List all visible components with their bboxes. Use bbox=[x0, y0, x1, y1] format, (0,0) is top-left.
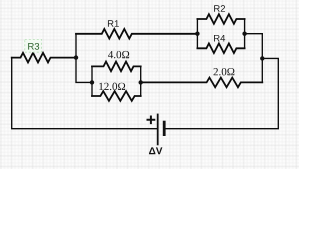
wire left stub of 4.0/12.0 parallel pair bbox=[91, 66, 93, 96]
label R1 bbox=[108, 20, 119, 27]
resistor R3 bbox=[12, 53, 76, 63]
battery negative plate (short) bbox=[163, 121, 166, 136]
label R4 bbox=[214, 35, 225, 42]
wire left-vertical and bottom from R3 to battery positive bbox=[12, 58, 157, 129]
value label 4.0 ohm bbox=[108, 51, 129, 58]
wire vertical segment through node C joining R2R4 output to 2.0ohm bbox=[261, 34, 263, 83]
label deltaV bbox=[149, 147, 162, 154]
wire right stub of 4.0/12.0 parallel pair bbox=[140, 66, 142, 96]
resistor 2.0 ohm bbox=[141, 78, 263, 88]
resistor R1 bbox=[76, 29, 197, 39]
node right of 4.0/12.0 parallel pair bbox=[139, 80, 143, 84]
label R2 bbox=[214, 5, 225, 12]
node left of 4.0/12.0 parallel pair bbox=[90, 80, 94, 84]
node A junction of R3, R1 and parallel combo bbox=[74, 55, 78, 59]
wire from battery negative along bottom and right edge up to node C bbox=[165, 58, 278, 128]
node left of R2/R4 parallel pair bbox=[195, 32, 199, 36]
value label 12.0 ohm bbox=[99, 83, 125, 90]
node B right of R2/R4 parallel pair bbox=[242, 32, 246, 36]
wire right stub of R2/R4 parallel pair bbox=[244, 19, 246, 48]
node C tap to battery return bbox=[260, 56, 264, 60]
junction node dots bbox=[74, 32, 265, 85]
battery deltaV bbox=[158, 114, 165, 146]
wire from node B right to corner bbox=[245, 33, 263, 35]
resistor R2 bbox=[197, 14, 244, 24]
resistor 4.0 ohm bbox=[92, 62, 141, 72]
label R3 selection highlight box bbox=[25, 39, 42, 52]
battery polarity plus sign bbox=[147, 116, 156, 125]
resistor R4 bbox=[197, 44, 244, 54]
label R3 (selected, green) bbox=[28, 43, 39, 50]
value label 2.0 ohm bbox=[214, 68, 235, 75]
wire left stub of R2/R4 parallel pair bbox=[196, 19, 198, 48]
background grid bbox=[0, 0, 299, 169]
resistor 12.0 ohm bbox=[92, 91, 141, 101]
battery positive plate (long) bbox=[157, 114, 159, 146]
wire vertical from R1 left end through node A down to parallel combo bbox=[76, 34, 92, 83]
